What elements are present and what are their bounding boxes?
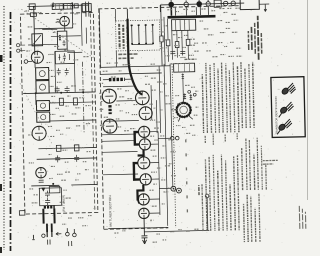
bus drop 3 (185, 7, 187, 16)
transformer T2 winding (44, 205, 55, 208)
tube V9 electrodes (140, 126, 147, 137)
RF coil can inner (85, 4, 88, 12)
heavy elbow 1 (135, 132, 140, 145)
oscillator box coil (59, 35, 61, 40)
IF can A slug (39, 71, 45, 77)
switch label column 1 (118, 24, 121, 49)
bus drop 1 (170, 7, 172, 15)
ratio detector box (174, 63, 195, 72)
svg-text:AM TUNER SECTION: AM TUNER SECTION (108, 195, 113, 227)
plug prong 1 (46, 232, 48, 237)
tuning meter body (176, 103, 190, 117)
wire h y26 (34, 27, 72, 30)
notes heading (198, 185, 200, 195)
copyright block line 1 (298, 205, 301, 229)
heavy elbow 2 (134, 163, 140, 180)
phono jack 1 (66, 232, 70, 236)
right riser terminal (205, 194, 209, 198)
meter resistor 2 (189, 94, 192, 100)
AM chain tube V10 (139, 139, 150, 150)
shield box parts (58, 53, 69, 61)
cluster cap 2 (180, 51, 185, 53)
IF can top B (64, 3, 73, 9)
bus drop 6 (207, 6, 209, 15)
switch caption line 1 (118, 53, 138, 55)
AM tuner dashed enclosure (98, 6, 245, 230)
wire v x84 (80, 4, 83, 46)
notes text block mid-right (241, 138, 266, 191)
wire h y173 (103, 173, 138, 176)
tube V7 electrodes (142, 107, 150, 120)
transformer lead right (53, 208, 55, 223)
crease dotted diagonal 2 (20, 82, 52, 145)
dial lamp PL2 (196, 1, 202, 7)
tuning gang box (172, 19, 196, 31)
corner inset box (240, 0, 259, 10)
wire v x157 (155, 100, 158, 133)
capacitor C5 (55, 86, 60, 93)
transistor icon 2 (278, 102, 293, 117)
dial lamp PL1 (168, 2, 174, 8)
wire h y181 (31, 184, 97, 185)
wire to output jacks (159, 187, 170, 189)
heavy arc V13 (138, 195, 139, 203)
tube V8 electrodes (106, 119, 114, 133)
wire v x152 (150, 85, 153, 120)
test point terminal (24, 60, 28, 64)
tube V14 electrodes (141, 208, 147, 218)
right riser wire (206, 198, 209, 230)
bus drop 4 (195, 7, 197, 15)
component value labels texture (25, 6, 246, 245)
wire stub to page top 2 (71, 2, 73, 6)
output jack 2 pin (178, 190, 180, 192)
tube V7 (139, 107, 152, 120)
copyright block line 2 (301, 209, 303, 229)
transformer lead left (42, 209, 44, 224)
shield box right of V2 (55, 51, 74, 64)
left edge blob 3 (0, 247, 2, 253)
meter small circle 1 (188, 90, 191, 93)
coil lead wires (103, 78, 133, 81)
wire v x56 (54, 51, 57, 92)
switch contact 4 (152, 24, 154, 44)
meter lead up (182, 98, 184, 102)
antenna lead wires (20, 45, 26, 51)
phono jack 2 (73, 233, 77, 237)
V1 grid cap (57, 19, 60, 22)
plug arrow (56, 232, 62, 235)
bus drop 2 (174, 8, 176, 16)
switch contact bottom dots (132, 43, 153, 45)
lamp socket 3 (223, 1, 227, 5)
RF coil can (82, 4, 91, 12)
switch contact dots (132, 24, 153, 26)
wire h y50 (67, 51, 82, 53)
title text line 4 (257, 16, 260, 60)
wire stub to page top 1 (52, 2, 54, 6)
meter small circle 2 (193, 93, 196, 96)
antenna coil T1 (29, 4, 35, 10)
IF can D slug (41, 114, 46, 119)
tuning gang plates (176, 19, 190, 30)
meter resistor 1 (183, 93, 186, 99)
FM tuner section dashed enclosure (20, 12, 98, 214)
tube V4 electrodes (38, 168, 44, 183)
meter lead down-left (178, 116, 181, 122)
variable capacitor arrow (33, 35, 41, 44)
transistor identification box (271, 77, 305, 138)
cluster resistor 2 (175, 42, 179, 48)
ratio detector box ticks (179, 63, 190, 72)
lamp wire drop left (159, 5, 161, 12)
page right edge line (307, 0, 309, 200)
capacitor C10 (74, 155, 79, 162)
tube V12 electrodes (142, 174, 149, 185)
junction dots top (33, 6, 35, 8)
tube V13 electrodes (140, 194, 147, 205)
wire h y151 (102, 151, 137, 154)
switch wiper line (132, 43, 153, 45)
phono jack 2 stem (73, 229, 75, 233)
notes item number ticks (186, 139, 188, 212)
cluster label (184, 58, 196, 60)
wire v x36 (34, 7, 35, 55)
cluster resistor 1 (166, 40, 170, 46)
IF can top A inner (56, 4, 60, 10)
title text line 1 (247, 31, 249, 50)
wire v x88 top (85, 6, 88, 44)
chain stub wires right (147, 132, 160, 214)
power bus heavy line (167, 16, 215, 17)
crease dotted diagonal 1 (21, 7, 94, 60)
small cap top (74, 4, 78, 8)
heavy elbow 3 (137, 185, 143, 200)
dotted divider x173.5 (172, 64, 176, 228)
antenna terminal A (16, 44, 19, 47)
wire h y140 (102, 140, 134, 143)
transistor icon 1 (281, 83, 296, 96)
IF can top A (52, 4, 63, 10)
AM chain tube V9 (138, 126, 149, 137)
feeder wire x163 (161, 5, 162, 66)
long wire v x171 (170, 64, 173, 188)
lamp top stubs (171, 0, 208, 3)
junction dot y90 b (60, 92, 62, 94)
switch detail dotted box (116, 20, 161, 51)
oscillator coil vertical (108, 105, 111, 114)
tube V4 (36, 167, 47, 178)
tube V2 electrodes (34, 51, 40, 63)
feeder wire x166 (164, 17, 165, 66)
bus drop 5 (199, 7, 201, 15)
svg-text:(FM TUNER): (FM TUNER) (61, 195, 65, 213)
feeder resistor (160, 36, 164, 42)
film perforation column (3, 6, 5, 250)
junction dot y90 c (82, 91, 84, 93)
line cord left (46, 224, 48, 232)
bottom wire y231 (144, 230, 209, 231)
wire h y42 (28, 43, 58, 46)
output arrow (142, 238, 146, 244)
wire v x76 (74, 63, 77, 91)
wire v x75 (71, 6, 73, 28)
detector box (49, 186, 60, 193)
IF can C slug (40, 103, 45, 108)
fold dash-dot rule (10, 12, 12, 251)
oscillator box cap (62, 40, 65, 46)
gnd bar symbol (32, 235, 35, 240)
notes text block mid-left (201, 154, 239, 231)
transistor icon 3 (277, 119, 292, 134)
filter capacitor Ca (45, 191, 50, 198)
tube V11 electrodes (140, 157, 147, 169)
mid terminal pair (170, 136, 174, 140)
tube V1 electrodes (62, 16, 67, 26)
switch label column 2 (122, 25, 125, 49)
capacitor C9 (55, 155, 60, 162)
test point lead (28, 60, 32, 62)
resistor below box (182, 73, 185, 79)
switch contact 1 (131, 25, 133, 45)
tube V5 (102, 89, 116, 103)
switch label column 3 (126, 27, 128, 47)
switch contact 2 (138, 24, 140, 44)
lamp socket 4 (231, 1, 235, 5)
filter capacitor Cb (45, 198, 50, 205)
antenna coil iron core (109, 78, 125, 82)
tube V10 electrodes (141, 139, 148, 150)
wire h y133 (102, 133, 136, 136)
left edge blob 1 (0, 55, 3, 62)
V1 cathode drop (64, 26, 66, 31)
junction dot y90 a (35, 92, 37, 94)
coupling rect on x36 (30, 13, 36, 17)
tube V3 (32, 126, 46, 140)
output jack 1 pin (173, 188, 175, 190)
shielded lead heavy (128, 18, 143, 94)
shielded lead top (126, 9, 128, 19)
switch caption line 2 (118, 57, 134, 59)
top exit wires (86, 2, 89, 17)
top FM input wire (27, 5, 89, 6)
tube V3 electrodes (35, 126, 43, 140)
jack label text (69, 241, 72, 246)
wire v x160 (159, 66, 161, 133)
lamp wire tail (259, 4, 269, 12)
tube V6 electrodes (138, 91, 146, 104)
output jack 2 (176, 188, 181, 193)
cluster cap 1 (170, 52, 175, 54)
inner shield dash-dot divider (82, 62, 84, 134)
lamp socket 1 (184, 2, 188, 6)
wire v x118 (115, 9, 116, 67)
IF transformer can C (36, 101, 49, 111)
IF can top B inner (67, 4, 70, 10)
wire h y156 (37, 158, 97, 159)
phono jack 1 stem (66, 228, 68, 232)
notes text block upper (202, 62, 254, 133)
lamp socket 2 (206, 2, 210, 6)
antenna terminal B (17, 49, 20, 52)
caps below shield box (57, 68, 69, 75)
resistor R7 (56, 145, 61, 151)
tube V2 (31, 51, 43, 63)
long wire h y73 (100, 73, 161, 74)
tube V6 (135, 91, 149, 105)
resistor R8 (74, 145, 79, 151)
AM chain tube V11 (138, 157, 150, 169)
plug ground pin (42, 234, 45, 237)
long wire h y66 (100, 66, 170, 68)
tube V1 (60, 16, 70, 26)
output drop wire (143, 219, 145, 235)
resistor R3 (59, 98, 63, 105)
wire h y27 (42, 28, 57, 30)
AM chain tube V14 (139, 208, 150, 219)
variable capacitor C1 (32, 34, 43, 46)
oscillator box below V1 (57, 31, 67, 49)
AM chain tube V12 (140, 174, 151, 185)
component cluster wires (168, 18, 189, 61)
wire v x36 mid (35, 59, 36, 105)
wire h y34 (51, 35, 81, 38)
long wire v x165 (164, 64, 168, 226)
plug label text (48, 240, 51, 245)
plug prong 2 (51, 231, 53, 236)
junction dot y181 (52, 183, 54, 185)
tuning meter bead ring (176, 103, 190, 117)
line cord right (51, 223, 53, 231)
power sub box (39, 188, 61, 206)
heavy stub mid (137, 150, 143, 156)
caption under transistor box (263, 159, 278, 161)
cluster resistor 3 (186, 39, 190, 45)
wire h y118 (50, 120, 96, 121)
AM chain tube V13 (138, 194, 149, 205)
IF transformer can A (36, 68, 49, 80)
diode arrow symbol (41, 188, 45, 192)
bus wire y90 (23, 92, 95, 94)
wire v x104 (99, 9, 100, 67)
meter lead down-right (188, 115, 193, 120)
capacitor C6 (65, 86, 70, 93)
wire h y100 (101, 100, 135, 103)
tuning meter face (180, 106, 188, 114)
left edge blob 2 (0, 184, 2, 191)
long wire v x158 (158, 132, 160, 215)
IF transformer can D (37, 112, 50, 122)
dial lamp wire (160, 3, 244, 5)
IF transformer can B (36, 81, 49, 94)
notes block A tails (205, 133, 237, 145)
notes text block lower-right (243, 194, 260, 242)
copyright block line 3 (304, 212, 306, 229)
fuse block (214, 0, 221, 7)
wire h y141 (38, 147, 96, 148)
resistor R4 (73, 98, 77, 105)
title text line 3 (254, 23, 257, 54)
tube V8 (103, 119, 117, 133)
switch contact 3 (145, 24, 147, 44)
inner shield dashed wall (90, 14, 94, 212)
wire to mid terminals (158, 137, 170, 139)
title text line 5 (260, 33, 262, 54)
wire h y85 (103, 85, 135, 88)
meter feed wire (182, 79, 184, 98)
bottom wire y227 (108, 227, 168, 228)
tube V5 electrodes (105, 89, 113, 103)
border corner box (19, 211, 25, 216)
wire h y120 (104, 119, 139, 122)
wire h y100 left (49, 102, 95, 103)
IF can B slug (39, 84, 45, 90)
output jack 1 (171, 186, 176, 191)
title text line 2 (250, 27, 253, 50)
output capacitor (141, 236, 147, 238)
